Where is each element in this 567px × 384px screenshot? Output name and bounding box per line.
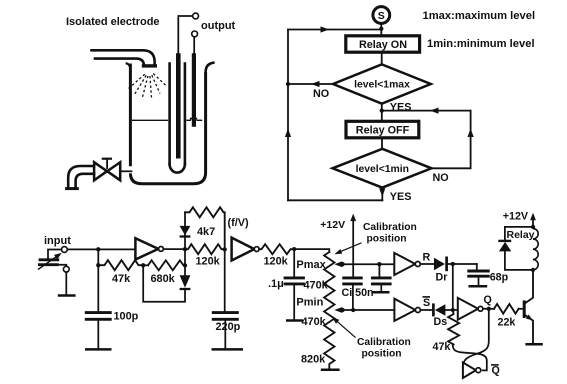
svg-text:Relay OFF: Relay OFF — [356, 125, 410, 137]
decision level<1min — [333, 149, 432, 188]
capacitor .1u — [284, 249, 305, 320]
node +12V relay — [531, 225, 535, 229]
svg-text:1min:minimum level: 1min:minimum level — [427, 38, 535, 50]
svg-text:input: input — [44, 235, 71, 247]
potentiometer chain Pmax/470k/Pmin/470k/820k — [324, 252, 334, 370]
wire inv1out to 680k — [184, 249, 186, 265]
Pmin wiper — [334, 307, 394, 313]
transistor T1 — [519, 270, 533, 344]
loop wire left-top into Relay ON — [288, 29, 381, 31]
wire box to diamond2 — [381, 139, 383, 149]
spray from nozzle — [128, 74, 167, 98]
capacitor 50n — [371, 264, 392, 291]
resistor 47k — [98, 260, 143, 270]
svg-text:NO: NO — [313, 88, 329, 100]
resistor 120k (a) — [185, 244, 225, 254]
wire R node — [447, 263, 477, 265]
relay coil — [533, 229, 538, 270]
resistor 120k (b) — [259, 244, 294, 254]
node 680k right — [183, 263, 187, 267]
svg-text:output: output — [201, 20, 236, 32]
wire to Dr — [420, 263, 434, 265]
svg-text:Calibration: Calibration — [357, 337, 411, 348]
node coil bottom — [531, 268, 535, 272]
water level line — [132, 119, 202, 121]
wire to divider top — [294, 249, 329, 252]
+12V supply right — [503, 211, 536, 227]
inverter U2a (latch) — [458, 298, 483, 320]
branch wire down — [97, 249, 99, 311]
Pmax wiper — [334, 261, 394, 267]
svg-text:YES: YES — [390, 191, 412, 203]
svg-text:47k: 47k — [112, 273, 131, 285]
capacitor 68p — [467, 264, 489, 285]
box Relay ON — [346, 36, 420, 52]
main wire to inverter1 — [67, 248, 135, 250]
ground (100p) — [85, 348, 112, 351]
diode Ds — [433, 303, 445, 316]
node R — [451, 262, 455, 266]
drain valve — [94, 159, 131, 181]
svg-text:YES: YES — [390, 102, 412, 114]
svg-text:Isolated electrode: Isolated electrode — [66, 16, 160, 28]
svg-text:220p: 220p — [216, 321, 241, 333]
svg-text:820k: 820k — [301, 354, 326, 366]
node 47k/680k — [141, 263, 145, 267]
svg-text:Q: Q — [492, 365, 500, 377]
input terminal bottom — [63, 266, 69, 272]
junction YES node — [380, 108, 384, 112]
junction NO/left rail — [286, 82, 290, 86]
resistor 4k7 — [185, 207, 225, 249]
NO wire diamond1 to left rail — [288, 83, 333, 85]
svg-text:Calibration: Calibration — [363, 222, 417, 233]
svg-text:+12V: +12V — [320, 219, 345, 231]
wire inv1out up — [184, 212, 186, 249]
output terminal 1 — [193, 13, 199, 19]
svg-text:position: position — [367, 234, 407, 245]
wire Qbar to 47k — [453, 345, 487, 371]
bottom return wire — [288, 199, 382, 201]
wire S to Relay ON — [380, 24, 382, 35]
+12V supply left — [320, 214, 356, 277]
svg-text:.1μ: .1μ — [268, 278, 284, 290]
flyback diode — [498, 227, 533, 270]
NO wire diamond2 right and up — [432, 111, 471, 169]
ground (220p) — [212, 348, 244, 351]
wire to Ds — [420, 309, 433, 311]
electrode rod 2 — [192, 53, 196, 127]
svg-text:22k: 22k — [498, 317, 516, 329]
isolated electrode U-tube — [170, 64, 185, 173]
wire inv1 out — [163, 248, 185, 250]
node inv1 out — [183, 247, 187, 251]
return wire from right rail — [384, 110, 471, 112]
node 47k tap — [96, 263, 100, 267]
svg-text:68p: 68p — [490, 272, 509, 284]
sensor variable capacitor — [38, 250, 66, 270]
node S — [451, 308, 455, 312]
svg-text:Pmin: Pmin — [296, 297, 323, 309]
ground (emitter) — [525, 343, 542, 346]
comparator U1c — [394, 253, 420, 275]
ground (input) — [58, 294, 76, 297]
ground (divider) — [321, 369, 340, 372]
inverter U1b — [232, 238, 260, 261]
node S (start) — [373, 7, 390, 24]
svg-text:Dr: Dr — [436, 271, 448, 283]
calibration pointer lower — [332, 317, 356, 338]
svg-text:47k: 47k — [433, 341, 451, 353]
capacitor 100p — [85, 313, 112, 349]
ground (68p) — [469, 285, 488, 288]
svg-text:NO: NO — [433, 172, 449, 184]
svg-text:470k: 470k — [302, 316, 327, 328]
label S bar — [423, 297, 431, 309]
svg-text:Ds: Ds — [434, 316, 448, 328]
left return wire — [287, 30, 289, 201]
wire box to diamond1 — [381, 53, 383, 65]
wire Q to 22k — [483, 308, 494, 310]
diode D2 (parallel 680k) — [143, 265, 190, 301]
resistor 680k — [148, 260, 185, 270]
svg-text:Q: Q — [484, 294, 492, 306]
ground (.1u) — [286, 319, 303, 322]
wire diamond1 to Relay OFF — [381, 104, 383, 120]
junction above Relay ON — [379, 27, 383, 31]
tank walls — [126, 63, 215, 184]
svg-text:+12V: +12V — [503, 211, 529, 223]
svg-text:470k: 470k — [304, 280, 329, 292]
YES exit down — [381, 188, 383, 201]
capacitor Ci — [342, 278, 362, 310]
wire electrode1 to terminal — [178, 16, 192, 53]
svg-text:120k: 120k — [196, 256, 221, 268]
node main/branch — [96, 247, 100, 251]
box Relay OFF — [346, 121, 419, 138]
svg-text:Relay ON: Relay ON — [359, 39, 407, 51]
faucet spout — [67, 166, 95, 189]
svg-text:4k7: 4k7 — [197, 226, 215, 238]
resistor 47k (latch feedback) — [448, 310, 459, 345]
inlet pipe — [92, 50, 158, 66]
svg-text:S: S — [423, 297, 430, 309]
wire Q down to U2b input — [463, 309, 489, 368]
inverter U1a — [135, 238, 163, 259]
wire Ds to node — [445, 309, 457, 311]
diode Dr — [434, 257, 447, 272]
node inv2 in — [223, 247, 227, 251]
comparator U1d — [394, 299, 420, 321]
svg-text:R: R — [423, 252, 431, 264]
svg-text:S: S — [378, 10, 385, 22]
svg-text:level<1max: level<1max — [354, 80, 410, 91]
electrode rod 1 (inside tube) — [176, 53, 181, 158]
node Q — [487, 307, 491, 311]
svg-text:Relay: Relay — [507, 229, 535, 241]
input terminal top — [62, 247, 68, 253]
calibration pointer upper — [334, 243, 361, 254]
ground (50n) — [373, 291, 390, 294]
svg-text:Ci 50n: Ci 50n — [342, 287, 374, 299]
svg-text:120k: 120k — [264, 256, 289, 268]
wire R to S bar node — [452, 264, 454, 310]
svg-text:680k: 680k — [151, 273, 176, 285]
diode D1 (series 4k7) — [180, 226, 191, 237]
decision level<1max — [333, 64, 431, 103]
output terminal 2 — [192, 31, 198, 37]
resistor 22k — [494, 304, 519, 314]
inverter U2b (latch feedback) — [463, 363, 481, 379]
wire to ground — [65, 272, 67, 295]
node f/V out — [292, 247, 296, 251]
svg-text:(f/V): (f/V) — [228, 217, 250, 229]
wire electrode2 to terminal — [193, 37, 195, 53]
svg-text:level<1min: level<1min — [356, 164, 409, 175]
capacitor 220p — [212, 313, 239, 349]
wire down to 220p — [224, 249, 226, 311]
svg-text:1max:maximum level: 1max:maximum level — [423, 10, 536, 22]
svg-text:100p: 100p — [114, 311, 139, 323]
svg-text:Pmax: Pmax — [296, 259, 326, 271]
svg-text:position: position — [362, 348, 402, 359]
label Q bar — [491, 365, 500, 377]
